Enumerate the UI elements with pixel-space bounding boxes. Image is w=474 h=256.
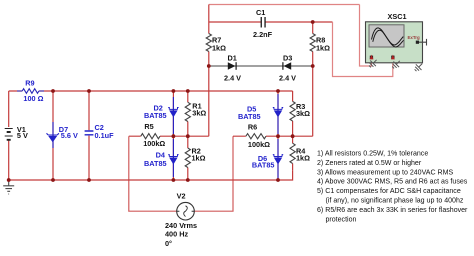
diode D3 [284, 62, 292, 70]
resistor R8 [310, 34, 315, 52]
resistor R4 [290, 143, 295, 163]
battery V1 [5, 129, 13, 137]
diode D1 [228, 62, 236, 70]
zener D7 [52, 122, 54, 148]
svg-text:1kΩ: 1kΩ [192, 154, 206, 163]
ground [3, 180, 14, 194]
resistor R9 [17, 90, 44, 92]
wire scope B drop [333, 22, 393, 77]
wire top rail (R7 top to scope A) [209, 4, 360, 6]
wire scope A drop [360, 5, 372, 67]
svg-text:400 Hz: 400 Hz [165, 230, 188, 239]
svg-text:3kΩ: 3kΩ [192, 109, 206, 118]
resistor R2 [185, 148, 190, 168]
wire C2 column [88, 91, 90, 180]
svg-text:2.2nF: 2.2nF [253, 30, 273, 39]
svg-text:D1: D1 [228, 53, 237, 62]
svg-text:D3: D3 [283, 53, 292, 62]
svg-text:5.6 V: 5.6 V [61, 131, 78, 140]
svg-text:R9: R9 [25, 79, 34, 88]
svg-text:R5: R5 [144, 122, 153, 131]
diode D6 [277, 139, 279, 179]
svg-text:5 V: 5 V [17, 131, 28, 140]
svg-text:1kΩ: 1kΩ [296, 153, 310, 162]
scope ground A [367, 57, 379, 69]
svg-text:R6: R6 [248, 122, 257, 131]
resistor R6 [246, 134, 266, 139]
wire R5 row [129, 135, 209, 137]
wire column R8 x=313 [312, 22, 314, 136]
svg-text:1) All resistors 0.25W, 1% tol: 1) All resistors 0.25W, 1% tolerance [317, 150, 428, 157]
wire D7 column [52, 91, 54, 180]
svg-text:0.1uF: 0.1uF [95, 131, 115, 140]
scope pin A [370, 56, 373, 59]
wire row D1 D3 [209, 65, 313, 67]
wire main rail y=91 [9, 90, 293, 92]
wire D5 D6 column [277, 91, 279, 180]
resistor R7 [206, 34, 211, 52]
wire D2 D4 column [172, 91, 174, 180]
capacitor C2 [85, 131, 94, 135]
node junction dots [51, 89, 55, 93]
wire R3 R4 column x=292.6 [292, 91, 294, 170]
svg-text:1kΩ: 1kΩ [316, 43, 330, 52]
wire column R7 x=209 [208, 5, 210, 137]
scope pin B [391, 56, 394, 59]
svg-text:BAT85: BAT85 [144, 111, 167, 120]
wire R6 row [233, 135, 313, 137]
svg-text:5) C1 compensates for ADC S&H: 5) C1 compensates for ADC S&H capacitanc… [317, 188, 461, 195]
svg-text:6) R5/R6 are each 3x 33K in se: 6) R5/R6 are each 3x 33K in series for f… [317, 207, 468, 214]
svg-text:V2: V2 [177, 192, 186, 201]
oscilloscope XSC1 [366, 22, 423, 63]
scope ground B [390, 58, 402, 70]
source V2 [177, 202, 195, 220]
resistor R3 [290, 101, 295, 121]
svg-text:(if any), no significant phase: (if any), no significant phase lag up to… [326, 198, 464, 205]
svg-text:C1: C1 [256, 8, 265, 17]
svg-text:100 Ω: 100 Ω [23, 94, 43, 103]
svg-text:0°: 0° [165, 239, 172, 248]
svg-text:1kΩ: 1kΩ [212, 43, 226, 52]
svg-text:100kΩ: 100kΩ [143, 139, 165, 148]
scope ground trigger [413, 61, 425, 73]
svg-text:3kΩ: 3kΩ [296, 109, 310, 118]
svg-text:ExTrg: ExTrg [408, 35, 421, 40]
svg-text:2.4 V: 2.4 V [279, 73, 296, 82]
svg-text:4) Above 300VAC RMS, R5 and R6: 4) Above 300VAC RMS, R5 and R6 act as fu… [317, 179, 468, 186]
wire V2 right leg [194, 136, 233, 211]
wire C1 rail right [266, 21, 333, 23]
svg-text:2) Zeners rated at 0.5W or hig: 2) Zeners rated at 0.5W or higher [317, 160, 422, 167]
wire ground rail [9, 170, 293, 180]
resistor R1 [185, 102, 190, 121]
svg-text:3) Allows measurement up to 24: 3) Allows measurement up to 240VAC RMS [317, 169, 453, 176]
svg-text:2.4 V: 2.4 V [224, 73, 241, 82]
wire R1 R2 column [187, 91, 189, 180]
svg-text:BAT85: BAT85 [238, 112, 261, 121]
wire V2 left leg [129, 136, 177, 211]
diode D5 [277, 94, 279, 134]
wire V1 column [8, 91, 10, 180]
svg-text:XSC1: XSC1 [388, 12, 407, 21]
capacitor C1 [261, 17, 262, 28]
svg-text:BAT85: BAT85 [144, 159, 167, 168]
svg-text:BAT85: BAT85 [252, 160, 275, 169]
resistor R5 [141, 134, 160, 139]
svg-text:100kΩ: 100kΩ [248, 140, 270, 149]
svg-text:protection: protection [326, 217, 357, 224]
diode D4 [172, 139, 174, 177]
diode D2 [172, 97, 174, 134]
wire C1 rail left [209, 21, 261, 23]
